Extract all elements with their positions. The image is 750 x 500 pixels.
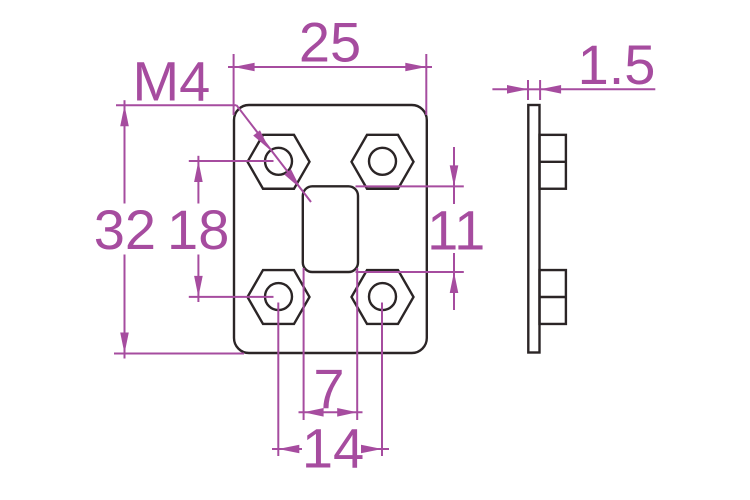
dim 7 arrow right: [337, 408, 357, 417]
hex nut top-right: [352, 135, 414, 189]
dim 18 arrow top: [194, 161, 203, 182]
dim 14 arrow left: [278, 445, 299, 454]
hex nut bottom-right: [352, 270, 414, 324]
dim 1.5 line right: [540, 88, 655, 90]
dim 1.5 extension tick right: [539, 80, 541, 100]
dim 14 line left: [272, 448, 302, 450]
M4 leader underline: [116, 104, 237, 106]
dim 1.5 arrow left: [507, 85, 528, 94]
dim 11 arrow bottom: [453, 253, 455, 310]
svg-text:11: 11: [427, 198, 485, 261]
svg-text:1.5: 1.5: [578, 33, 656, 96]
svg-text:14: 14: [302, 417, 364, 480]
dim 18 arrow bottom: [194, 276, 203, 297]
dim 7 line: [299, 411, 363, 413]
dim 1.5 line middle: [528, 88, 540, 90]
dim 25 line: [228, 66, 432, 68]
dim 18 extension line bottom: [189, 296, 274, 298]
dim 1.5 extension tick left: [527, 80, 529, 100]
M4 leader arrow at hole: [253, 130, 270, 150]
side view plate: [528, 105, 539, 353]
hex nut top-left: [248, 135, 310, 189]
dim 32 line upper: [124, 100, 126, 203]
svg-text:32: 32: [94, 198, 156, 261]
tapped hole circle top-left: [265, 148, 292, 175]
hex nut bottom-left: [248, 270, 310, 324]
dim 32 arrow top: [120, 105, 129, 126]
dim 7 arrow left: [304, 408, 324, 417]
tapped hole circle bottom-right: [369, 283, 396, 310]
center square cutout: [303, 186, 358, 272]
dim 32 line lower: [124, 255, 126, 359]
dim 1.5 line left: [492, 88, 528, 90]
front view plate outline: [234, 105, 427, 353]
M4 leader arrow at hex edge: [284, 169, 301, 189]
svg-text:25: 25: [299, 11, 361, 74]
M4 leader diagonal: [237, 105, 312, 202]
dim 11 extension line top: [356, 185, 464, 187]
dim 18 line lower: [197, 255, 199, 303]
dim 7 extension line right: [356, 268, 358, 420]
dim 25 extension line right: [425, 54, 427, 115]
dim 14 extension line left: [277, 303, 279, 457]
dim 14 arrow right: [361, 445, 382, 454]
tapped hole circle bottom-left: [265, 283, 292, 310]
tapped hole circle top-right: [369, 148, 396, 175]
dim 14 extension line right: [381, 303, 383, 457]
dim 32 bottom extension line: [114, 353, 244, 355]
side view nut top: [540, 135, 566, 189]
dim 11 extension line bottom: [356, 271, 464, 273]
side view nut bottom: [540, 270, 566, 324]
dim 32 arrow bottom: [120, 333, 129, 354]
dim 11 arrow top: [453, 147, 455, 204]
dim 18 extension line top: [189, 160, 274, 162]
dim 7 extension line left: [303, 268, 305, 420]
dim 1.5 arrow right: [540, 85, 561, 94]
dim 25 extension line left: [233, 54, 235, 115]
dim 14 line right: [364, 448, 389, 450]
svg-text:18: 18: [167, 198, 229, 261]
dim 25 arrow right: [405, 63, 426, 72]
svg-text:7: 7: [313, 357, 344, 420]
svg-text:M4: M4: [133, 50, 211, 113]
dim 18 line upper: [197, 156, 199, 204]
dim 25 arrow left: [234, 63, 255, 72]
